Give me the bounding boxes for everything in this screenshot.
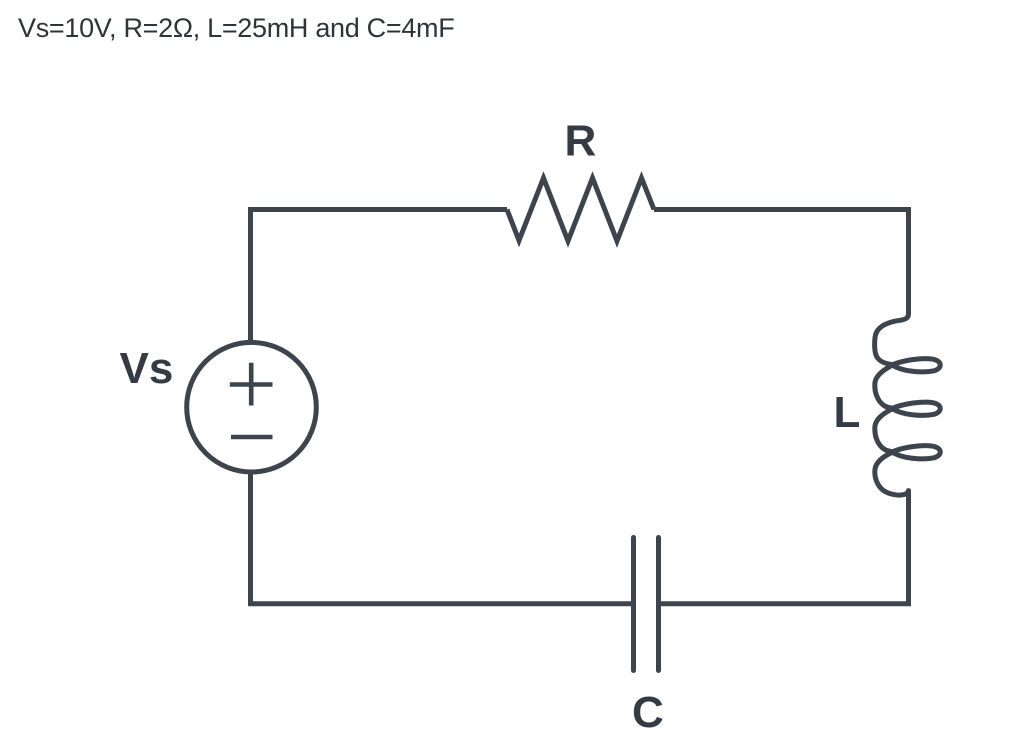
resistor R: [507, 178, 654, 241]
capacitor C left plate: [631, 538, 636, 671]
wire top-right (resistor to top-right corner down to inductor): [654, 210, 909, 314]
svg-text:R: R: [565, 117, 597, 166]
wire top-left (source top to top-left corner to resistor): [251, 210, 508, 342]
plus sign: [230, 363, 273, 406]
svg-text:Vs: Vs: [120, 344, 174, 393]
svg-text:L: L: [834, 388, 861, 437]
svg-text:Vs=10V, R=2Ω, L=25mH and C=4mF: Vs=10V, R=2Ω, L=25mH and C=4mF: [18, 13, 454, 43]
inductor L coil: [875, 314, 941, 495]
minus sign: [231, 435, 273, 440]
svg-text:C: C: [632, 688, 664, 737]
wire bottom-left (capacitor left plate to bottom-left corner up to source bottom): [251, 473, 634, 604]
voltage source Vs circle: [187, 342, 317, 472]
wire right-bottom (inductor to bottom-right corner to capacitor right plate): [659, 490, 909, 604]
capacitor C right plate: [656, 538, 661, 671]
